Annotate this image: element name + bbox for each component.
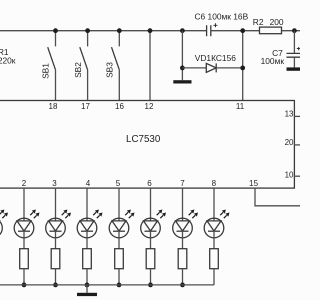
ground (below C7, cut at right edge)	[287, 67, 301, 70]
svg-text:SB1: SB1	[41, 63, 51, 79]
junction on bottom bus	[22, 283, 27, 288]
wire pin stub to LED HL6	[182, 188, 184, 221]
LED HL2	[46, 210, 71, 238]
svg-text:7: 7	[180, 179, 185, 188]
svg-text:4: 4	[86, 179, 91, 188]
svg-text:17: 17	[81, 102, 90, 111]
resistor (ballast for LED HL5)	[146, 249, 155, 269]
resistor (ballast for LED HL2)	[51, 249, 60, 269]
pin 13 stub	[285, 110, 300, 119]
resistor R2 200	[253, 17, 284, 34]
svg-text:SB2: SB2	[73, 62, 83, 78]
LED HL7	[204, 210, 229, 238]
svg-text:3: 3	[52, 179, 57, 188]
wire pin stub to LED HL4	[118, 188, 120, 221]
svg-text:C6 100мк 16В: C6 100мк 16В	[195, 11, 249, 21]
junction on bottom bus	[180, 283, 185, 288]
wire bus from C6 to R2	[211, 30, 260, 32]
wire pin stub to LED HL3	[86, 188, 88, 221]
wire LED HL3 cathode to resistor	[86, 231, 88, 249]
svg-text:2: 2	[22, 179, 27, 188]
wire ground/diode branch	[181, 31, 183, 80]
wire pin stub to LED HL1	[23, 188, 25, 221]
svg-text:11: 11	[236, 102, 245, 111]
wire R2 to right edge	[282, 30, 301, 32]
LED HL1	[14, 210, 39, 238]
wire pin stub to LED HL5	[150, 188, 152, 221]
zener diode VD1 КС156	[182, 53, 242, 73]
svg-text:R2: R2	[253, 17, 264, 27]
LED HL4	[109, 210, 134, 238]
junction on bottom bus	[85, 283, 90, 288]
wire LED HL2 cathode to resistor	[55, 231, 57, 249]
capacitor C7 100мк (to ground, cut at right edge)	[261, 31, 300, 68]
wire top supply bus (left section)	[0, 30, 207, 32]
svg-text:12: 12	[145, 102, 154, 111]
wire LED HL4 cathode to resistor	[118, 231, 120, 249]
svg-text:13: 13	[285, 110, 294, 119]
svg-text:15: 15	[249, 179, 258, 188]
wire resistor to bottom bus	[23, 269, 25, 285]
junction SB2 on bus	[85, 28, 90, 33]
wire resistor to bottom bus	[86, 269, 88, 285]
resistor (ballast for LED HL7)	[210, 249, 219, 269]
resistor (ballast for LED HL6)	[178, 249, 187, 269]
svg-text:LC7530: LC7530	[126, 134, 161, 145]
op IC U1 LC7530 (body, cut at left edge)	[0, 101, 294, 189]
wire pin 12 to bus	[149, 31, 151, 101]
junction pin11 branch on bus	[240, 28, 245, 33]
junction on bottom bus	[148, 283, 153, 288]
ground (bottom bus)	[77, 285, 97, 296]
junction pin12 wire on bus	[148, 28, 153, 33]
resistor (ballast for LED HL4)	[115, 249, 124, 269]
svg-text:SB3: SB3	[105, 62, 115, 78]
LED HL6	[173, 210, 198, 238]
wire pin 11 branch	[242, 31, 244, 101]
svg-text:5: 5	[116, 179, 121, 188]
junction diode anode	[180, 66, 185, 71]
switch SB2	[73, 31, 88, 101]
wire bottom common bus	[0, 284, 214, 286]
wire resistor to bottom bus	[150, 269, 152, 285]
LED HL5	[141, 210, 166, 238]
junction ground branch on bus	[180, 28, 185, 33]
wire resistor to bottom bus	[213, 269, 215, 285]
junction C7 tap	[292, 28, 297, 33]
svg-text:200: 200	[270, 17, 284, 27]
wire LED HL5 cathode to resistor	[150, 231, 152, 249]
LED HL3	[77, 210, 102, 238]
wire LED HL1 cathode to resistor	[23, 231, 25, 249]
switch SB3	[105, 31, 120, 101]
resistor (ballast for LED HL3)	[83, 249, 92, 269]
wire pin stub to LED HL7	[213, 188, 215, 221]
junction SB3 on bus	[117, 28, 122, 33]
svg-text:10: 10	[285, 171, 294, 180]
svg-text:18: 18	[49, 102, 58, 111]
wire pin 15 to right edge	[255, 188, 300, 206]
wire pin stub to LED HL2	[55, 188, 57, 221]
LED HL (partially cut at left edge)	[0, 210, 8, 238]
junction on bottom bus	[53, 283, 58, 288]
capacitor C6 100мк 16В (polarized, in series in bus)	[195, 11, 249, 36]
junction SB1 on bus	[53, 28, 58, 33]
svg-text:220к: 220к	[0, 55, 16, 65]
junction on bottom bus	[117, 283, 122, 288]
pin 20 stub	[285, 138, 300, 147]
svg-text:20: 20	[285, 138, 294, 147]
svg-text:16: 16	[115, 102, 124, 111]
svg-text:8: 8	[212, 179, 217, 188]
switch SB1	[41, 31, 56, 101]
svg-text:VD1КС156: VD1КС156	[195, 53, 236, 63]
wire resistor to bottom bus	[118, 269, 120, 285]
wire LED HL7 cathode to resistor	[213, 231, 215, 249]
junction diode cathode	[240, 66, 245, 71]
svg-text:6: 6	[147, 179, 152, 188]
pin 10 stub	[285, 171, 300, 180]
wire LED HL6 cathode to resistor	[182, 231, 184, 249]
ground (near VD1)	[173, 80, 191, 83]
resistor R1 (symbol cut off at left edge) value label	[0, 47, 16, 65]
svg-text:100мк: 100мк	[261, 56, 285, 66]
wire resistor to bottom bus	[55, 269, 57, 285]
wire resistor to bottom bus	[182, 269, 184, 285]
resistor (ballast for LED HL1)	[20, 249, 29, 269]
